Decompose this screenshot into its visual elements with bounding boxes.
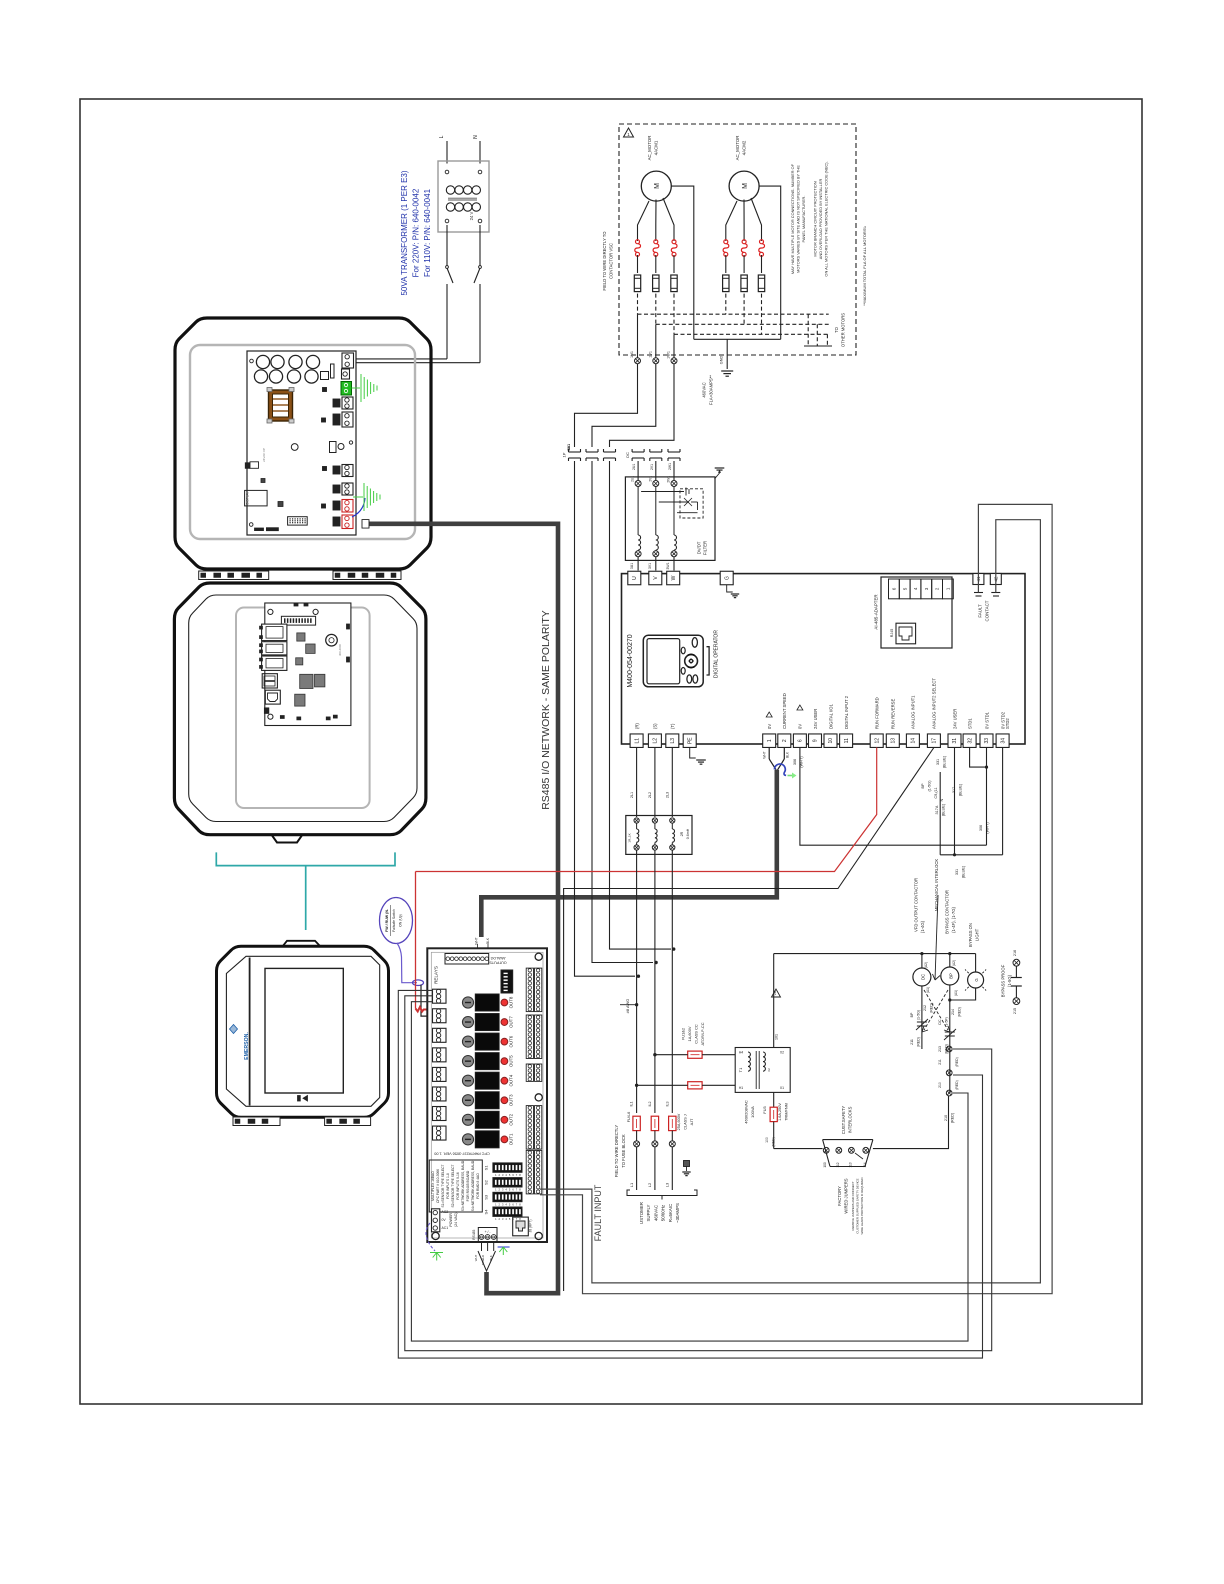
svg-text:112: 112 [836,1162,840,1167]
svg-text:OUT8: OUT8 [509,996,514,1008]
svg-text:WHT: WHT [475,937,479,944]
svg-text:L1: L1 [634,738,640,744]
drive terminal 14 [906,734,919,748]
filter caps dashed box [680,489,703,518]
shielded cable PCB1 to relay RS485 [368,524,558,1293]
shielded cable drive terminals to relay analog [481,770,777,937]
svg-text:14: 14 [911,738,917,744]
svg-text:POWER: POWER [449,1213,453,1227]
svg-text:331: 331 [936,759,940,765]
drive terminal 1 [763,734,776,748]
E3 screen [265,968,343,1093]
svg-text:2R: 2R [680,831,684,836]
svg-text:(RED): (RED) [958,1007,962,1017]
svg-text:M400-054-00270: M400-054-00270 [627,634,634,687]
svg-text:13: 13 [891,738,897,744]
svg-text:X1: X1 [780,1086,784,1090]
FW/RUW failsafe switch note [380,898,413,944]
svg-text:0V: 0V [442,1218,447,1222]
svg-text:DV/DT: DV/DT [697,541,702,554]
green power terminal on PCB1 [341,382,352,396]
svg-text:300-4000: 300-4000 [338,644,342,656]
drive terminal 33 [980,734,993,748]
svg-text:(A2): (A2) [952,960,956,966]
svg-text:CUSTOMER SUPPLIED SAFETY DEVIC: CUSTOMER SUPPLIED SAFETY DEVICE [855,1178,859,1233]
svg-text:101: 101 [775,1034,779,1040]
svg-text:G: G [724,576,730,580]
svg-text:(1-4G): (1-4G) [920,920,925,933]
motor 4ACM2 [729,171,759,201]
svg-text:FACTORY: FACTORY [837,1186,842,1206]
svg-text:9: 9 [813,739,819,742]
svg-text:#8 AWG: #8 AWG [625,999,630,1014]
RS485 terminal [478,1228,497,1243]
svg-text:T1: T1 [738,1067,743,1072]
svg-text:32: 32 [967,738,973,744]
E3 bottom strips [233,1117,280,1126]
PCB1 controller board [247,351,356,535]
svg-text:FILTER: FILTER [703,541,708,555]
svg-text:MOTORS VARIES BY SITE AND IS N: MOTORS VARIES BY SITE AND IS NOT SPECIFI… [796,165,801,273]
relay OUT3 [462,1095,473,1106]
svg-text:DC: DC [938,1019,942,1025]
svg-text:FIELD TO WIRE DIRECTLY: FIELD TO WIRE DIRECTLY [614,1125,619,1178]
svg-text:L3: L3 [670,738,676,744]
svg-text:FIELD TO WIRE DIRECTLY TO: FIELD TO WIRE DIRECTLY TO [602,231,607,291]
svg-text:OUT5: OUT5 [509,1055,514,1067]
svg-text:M: M [654,183,661,189]
RJ45 J8 [513,1217,529,1236]
wires 1,2 WHT/BLK to cable [768,748,770,760]
svg-text:1R_1K: 1R_1K [628,833,632,842]
svg-text:STD2: STD2 [1005,718,1010,729]
svg-text:**MAXIMUM TOTAL FLA OF ALL MOT: **MAXIMUM TOTAL FLA OF ALL MOTORS\\ [862,225,867,305]
svg-text:460VAC: 460VAC [653,1205,658,1221]
enclosure E2 (display controller box) [174,583,426,835]
svg-text:ANALOG INPUT1: ANALOG INPUT1 [911,695,916,729]
svg-text:2: 2 [782,739,788,742]
svg-text:460VAC: 460VAC [702,382,707,397]
svg-text:460//208VAC: 460//208VAC [744,1100,749,1124]
border frame [80,99,1142,1404]
svg-text:BP: BP [910,1012,914,1017]
svg-text:17: 17 [932,738,938,744]
drive terminal 11 [840,734,853,748]
red wire into relay board [415,872,417,1009]
ferrite loop (blue) [774,764,786,775]
AI-485 adapter [881,577,952,648]
svg-text:331: 331 [955,869,959,875]
svg-text:GND: GND [720,356,724,365]
svg-text:BLK: BLK [486,937,490,944]
svg-text:(1-4F), (1-7G): (1-4F), (1-7G) [951,906,956,932]
wires 1U1/1V1/1W1 to plug 1P [575,364,638,447]
svg-text:AJT: AJT [690,1118,694,1125]
coil rail [774,953,976,955]
svg-text:RJ45: RJ45 [890,629,894,637]
svg-text:AC_MOTOR: AC_MOTOR [647,136,652,161]
red wire 12 to relay board [416,748,877,872]
svg-text:MULTIPLEX 16BAO: MULTIPLEX 16BAO [431,1171,435,1201]
analog outputs terminal strip [445,954,489,965]
svg-text:CONTACT: CONTACT [985,600,990,621]
svg-text:0V: 0V [767,724,772,729]
svg-text:100: 100 [765,1137,769,1143]
svg-text:RUN REVERSE: RUN REVERSE [891,699,896,729]
wire 331 31/34 link [954,748,956,855]
svg-text:PE: PE [687,737,693,744]
purple dashed ground wire [426,1223,435,1251]
relay OUT1 [462,1134,473,1145]
svg-text:213: 213 [938,1046,942,1052]
line reactor 2R [626,816,692,855]
triangle 2B [772,989,781,997]
wire 32 to 33 [970,748,987,768]
svg-text:FU4-6: FU4-6 [627,1112,631,1123]
svg-text:N: N [473,135,479,139]
svg-text:(24 VAC): (24 VAC) [454,1213,458,1228]
motor1 lead 2 [655,200,657,242]
svg-text:WIRE LEADS PROTECTION IF REQUI: WIRE LEADS PROTECTION IF REQUIRED [860,1177,864,1234]
svg-text:FOR INPUTS 9-16: FOR INPUTS 9-16 [456,1172,460,1200]
purple wire to relay board [397,943,417,983]
PCB2 display board [265,603,351,726]
relay OUT8 [462,997,473,1008]
svg-text:(RED): (RED) [917,1037,921,1047]
svg-text:FU1&2: FU1&2 [681,1028,686,1040]
svg-text:OUT6: OUT6 [509,1035,514,1047]
svg-text:J8 (RPT): J8 (RPT) [529,1220,533,1233]
contactor coil DC [921,954,923,968]
enclosure E1 (iPro controller box) [175,318,431,569]
enclosure E2 bottom tab [272,835,303,843]
svg-text:SHIELD: SHIELD [481,1255,485,1265]
svg-text:ON ALL MOTORS PER THE NATIONAL: ON ALL MOTORS PER THE NATIONAL ELECTRIC … [824,161,829,276]
svg-text:2L2: 2L2 [648,792,652,798]
svg-text:24V USER: 24V USER [813,709,818,729]
svg-text:X2: X2 [780,1051,784,1055]
svg-text:214: 214 [951,1009,955,1015]
svg-text:114: 114 [863,1162,867,1167]
svg-text:EMERSON.: EMERSON. [244,1032,250,1060]
drive terminal 17 [927,734,940,748]
PCB2 battery [326,634,338,646]
svg-text:0.6mH: 0.6mH [686,828,690,839]
svg-text:211: 211 [938,1059,942,1065]
motor 4ACM1 [641,171,671,201]
plug row 1P / DC [569,451,581,453]
svg-text:6: 6 [798,739,804,742]
drive terminal L1 [630,734,643,748]
svg-text:215: 215 [1013,1008,1017,1014]
svg-text:(BLUE): (BLUE) [942,803,946,816]
svg-text:TRM/FNM: TRM/FNM [785,1103,789,1121]
svg-text:0V STD1: 0V STD1 [984,711,989,729]
fault contact loop 41 [540,504,1052,1293]
svg-text:X2: X2 [767,1068,771,1072]
relay OUT2 [462,1114,473,1125]
svg-text:CLASS J: CLASS J [684,1114,688,1130]
svg-text:L2: L2 [647,1182,652,1187]
svg-text:210: 210 [938,1082,942,1088]
svg-text:FOR INPUTS 1-8: FOR INPUTS 1-8 [446,1173,450,1199]
svg-text:CLASS CC: CLASS CC [694,1024,699,1044]
svg-text:W: W [671,575,677,580]
columns reactor to fuse block [636,850,638,1113]
svg-text:For 220V: P/N: 640-0042: For 220V: P/N: 640-0042 [412,188,421,277]
dashed bus to other motors [638,313,829,315]
PCB1 terminal blocks right side [342,353,354,368]
wire PE ground [690,748,696,759]
svg-text:DC: DC [625,452,630,458]
svg-text:1A,600V: 1A,600V [687,1026,692,1041]
svg-text:BYPASS CONTACTOR: BYPASS CONTACTOR [945,890,950,934]
svg-text:1P: 1P [562,452,567,457]
svg-text:(RED): (RED) [772,1137,776,1146]
drive terminal 9 [809,734,822,748]
svg-text:STD1: STD1 [967,718,972,729]
svg-text:317A: 317A [935,805,939,814]
warning triangle 1 [624,128,634,137]
teal network bracket [216,852,395,865]
dip switch top [501,970,513,993]
svg-text:24VAC I/P: 24VAC I/P [262,448,266,462]
svg-text:DC: DC [921,974,926,980]
svg-text:R=5KAIC: R=5KAIC [668,1204,673,1222]
svg-text:~30AMPS: ~30AMPS [675,1203,680,1223]
svg-text:DIGITAL OPERATOR: DIGITAL OPERATOR [714,630,720,678]
drive terminal 31 [948,734,961,748]
svg-text:317: 317 [952,787,956,793]
svg-text:MAY HAVE MULTIPLE MOTOR CONNEC: MAY HAVE MULTIPLE MOTOR CONNECTIONS. NUM… [790,163,795,274]
svg-text:100VA: 100VA [750,1106,755,1118]
filter ground [715,470,720,479]
lower text block [429,1160,482,1212]
svg-text:L2: L2 [653,738,659,744]
svg-text:OUT7: OUT7 [509,1016,514,1028]
coil bottom wires [921,986,923,1049]
customer safety interlock plug [823,1140,873,1167]
svg-text:S4: S4 [484,1209,489,1215]
svg-text:IL2: IL2 [648,1102,652,1107]
svg-text:CPC PART # 810-3066: CPC PART # 810-3066 [436,1169,440,1203]
svg-text:REMOVE JUMPERS AND CONNECT: REMOVE JUMPERS AND CONNECT [851,1181,855,1230]
drive terminal 6 [793,734,806,748]
pilot light G [975,954,977,972]
PCB2 ethernet jacks [262,624,287,641]
wires 1P down to bypass ties [575,461,636,976]
svg-text:S4=NETWORK ADDRESS, BAUD: S4=NETWORK ADDRESS, BAUD [471,1160,475,1211]
svg-text:31: 31 [952,738,958,744]
svg-text:2W1: 2W1 [668,463,672,470]
drive terminal L2 [648,734,661,748]
svg-text:4ACM2: 4ACM2 [742,140,747,155]
svg-text:0V: 0V [798,724,803,729]
svg-text:OTHER MOTORS: OTHER MOTORS [841,313,846,347]
digital operator keypad [643,635,703,687]
svg-text:FAULT: FAULT [978,604,983,618]
svg-text:S1: S1 [484,1165,489,1171]
svg-text:FOR RS485 BOARD: FOR RS485 BOARD [466,1170,470,1201]
relay OUT6 [462,1036,473,1047]
blue RS485 wire arc on PCB1 [352,498,365,517]
enclosure E1 bottom hinge strips [199,571,269,580]
motor2 lead 2 [743,200,745,242]
svg-text:(RED): (RED) [951,1112,955,1123]
svg-text:1U1: 1U1 [630,351,634,358]
enclosure E3 (touch display) [283,941,321,947]
svg-text:(R): (R) [634,723,639,729]
svg-text:OUTPUTS: OUTPUTS [489,961,507,965]
svg-text:DIGITAL INPUT 2: DIGITAL INPUT 2 [844,695,849,729]
svg-text:210: 210 [944,1115,948,1121]
svg-text:TO FUSE BLOCK: TO FUSE BLOCK [621,1134,626,1168]
svg-text:1W1: 1W1 [667,351,671,359]
svg-text:WIRED JUMPERS: WIRED JUMPERS [844,1178,849,1213]
svg-text:IL3: IL3 [665,1102,669,1107]
svg-text:4ACM1: 4ACM1 [654,140,659,155]
svg-text:S3: S3 [484,1194,489,1200]
power terminal 24VAC [432,1209,440,1232]
svg-text:PANEL MANUFACTURER.: PANEL MANUFACTURER. [801,196,806,243]
svg-text:2L1: 2L1 [630,792,634,798]
motor1 lead 1 [638,201,650,241]
svg-text:DIGITAL I/O1: DIGITAL I/O1 [828,703,833,729]
drive terminal 34 [996,734,1009,748]
svg-text:306: 306 [793,759,797,765]
svg-text:100: 100 [823,1162,827,1168]
svg-text:BP: BP [921,783,925,789]
wire 17 diagonal to relay board area [564,748,934,1292]
svg-text:S1=SENSOR TYPE SELECT: S1=SENSOR TYPE SELECT [441,1164,445,1207]
svg-text:MOTOR BRANCH CIRCUIT PROTECTIO: MOTOR BRANCH CIRCUIT PROTECTION [812,181,817,256]
svg-text:(RED): (RED) [930,1003,934,1013]
drive terminal PE [683,734,696,748]
svg-text:S2=SENSOR TYPE SELECT: S2=SENSOR TYPE SELECT [451,1164,455,1207]
svg-text:AND OVERLOAD PROVIDED BY INSTA: AND OVERLOAD PROVIDED BY INSTALLER [818,179,823,260]
svg-text:113: 113 [848,1162,852,1167]
motor ground leads [671,186,694,339]
svg-text:S3=NETWORK ADDRESS, BAUD: S3=NETWORK ADDRESS, BAUD [461,1160,465,1211]
svg-text:For 110V: P/N: 640-0041: For 110V: P/N: 640-0041 [423,188,432,277]
svg-text:306: 306 [979,825,983,831]
relay board left wires to contactor terminals [398,990,982,1358]
svg-text:L: L [439,135,445,138]
svg-text:33: 33 [984,738,990,744]
svg-text:FOR RMD 8 4AO: FOR RMD 8 4AO [476,1173,480,1199]
svg-text:10: 10 [828,738,834,744]
supply bracket [627,1190,697,1196]
wires DC plug to filter [637,461,639,480]
svg-text:50VA TRANSFORMER (1 PER E3): 50VA TRANSFORMER (1 PER E3) [400,170,409,295]
svg-text:CUST.SAFETY: CUST.SAFETY [841,1106,846,1135]
svg-text:L3: L3 [665,1182,670,1187]
svg-text:N: N [939,798,944,801]
svg-text:11: 11 [844,738,850,743]
wire 306 terminal 6 to 33 [800,748,987,846]
svg-text:(S): (S) [653,723,658,729]
DV/DT filter [625,477,715,561]
svg-text:SUPPLY: SUPPLY [646,1204,651,1221]
svg-text:(BLUE): (BLUE) [943,755,947,768]
small ground near supply [684,1161,690,1167]
green EMC ground symbol 2 [353,496,363,498]
drive terminal 13 [886,734,899,748]
right side analog input strips [526,968,533,1012]
svg-text:Failsafe Switch: Failsafe Switch [392,909,396,932]
svg-text:H1: H1 [739,1086,743,1090]
PCB2 ICs [297,633,305,641]
mechanical interlock X [924,990,948,1030]
svg-text:U: U [632,576,638,580]
svg-text:CPC PART#237-3056 VER. 1.00: CPC PART#237-3056 VER. 1.00 [434,1152,489,1156]
relay OUT4 [462,1075,473,1086]
VFD drive box M400 [622,574,1026,744]
svg-text:24V USER: 24V USER [952,709,957,729]
svg-text:2V1: 2V1 [650,464,654,470]
svg-text:BLK: BLK [489,1255,493,1260]
relay OUT7 [462,1016,473,1027]
svg-text:211: 211 [910,1039,914,1045]
svg-text:TO: TO [834,326,839,332]
drive terminal 12 [870,734,883,748]
svg-text:RELAYS: RELAYS [434,966,439,984]
svg-text:2W1: 2W1 [667,476,671,483]
svg-text:1W1: 1W1 [567,444,571,451]
wire 101 X2 up to rail [773,954,775,1048]
transformer on PCB1 (brown) [269,390,293,421]
green EMC ground symbol 1 [352,387,361,389]
relay OUT5 [462,1056,473,1067]
svg-text:FU3: FU3 [763,1106,767,1113]
svg-text:(T): (T) [670,723,675,729]
drive terminals U V W G [628,571,641,585]
svg-text:AC1: AC1 [442,1226,449,1230]
svg-text:FAULT INPUT: FAULT INPUT [593,1184,603,1241]
svg-text:FLA=30AMPS**: FLA=30AMPS** [709,375,714,405]
svg-text:USTOMER: USTOMER [639,1202,644,1224]
svg-text:212: 212 [923,1005,927,1011]
svg-text:3V1: 3V1 [648,563,652,569]
fault contact terminals 41 42 [973,574,984,585]
svg-text:C9,(11: C9,(11 [934,787,938,798]
svg-text:(WHT): (WHT) [800,756,804,768]
svg-text:INTERLOCKS: INTERLOCKS [848,1106,853,1133]
svg-text:(RED): (RED) [955,1080,959,1089]
wires drive L1-L3 to reactor [636,748,638,818]
svg-text:RS485: RS485 [472,1229,476,1239]
dashed field-wiring box [619,124,856,355]
transformer T1 [735,1048,790,1093]
svg-text:24 V: 24 V [469,211,474,220]
svg-text:DISPLAY: DISPLAY [246,491,250,505]
svg-text:S2: S2 [484,1179,489,1185]
svg-text:2U1: 2U1 [632,464,636,470]
svg-text:ON (Up): ON (Up) [399,914,403,927]
svg-text:ANALOG: ANALOG [490,956,505,960]
svg-text:WHT: WHT [763,751,767,758]
svg-text:(A1): (A1) [954,990,958,996]
svg-text:OUT3: OUT3 [509,1094,514,1106]
GND lead [726,339,728,369]
drive terminal 10 [824,734,837,748]
svg-text:M: M [742,183,749,189]
svg-text:RS485 I/O NETWORK - SAME POLAR: RS485 I/O NETWORK - SAME POLARITY [540,610,552,810]
EMERSON logo [230,1025,238,1034]
svg-text:50/60Hz: 50/60Hz [661,1205,666,1221]
svg-text:1.6A,250V: 1.6A,250V [778,1103,782,1121]
RS485 shield V and grounds [481,1242,483,1251]
